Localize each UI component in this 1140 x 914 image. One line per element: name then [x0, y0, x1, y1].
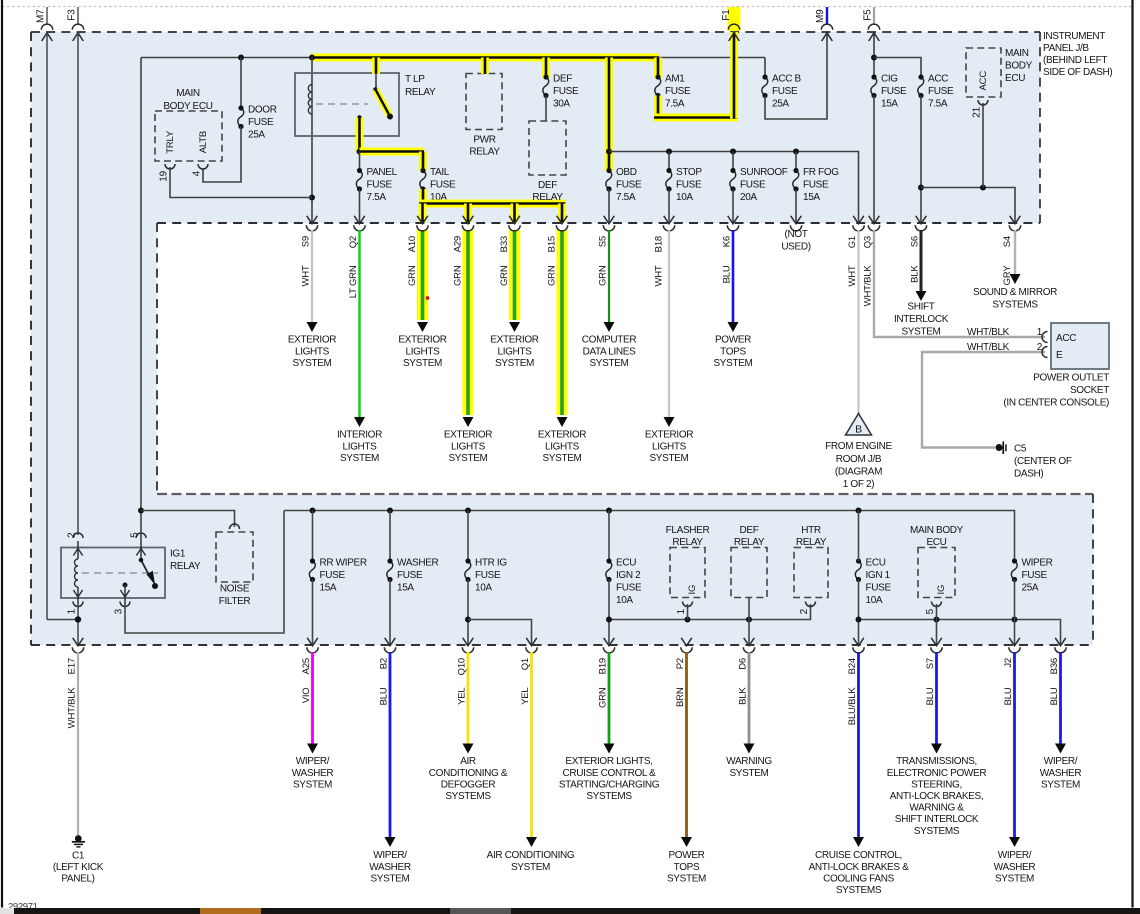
connector K6 + BLU wire to POWER TOPS SYSTEM	[728, 216, 739, 224]
svg-text:B24: B24	[847, 658, 858, 674]
svg-text:BLU: BLU	[379, 687, 390, 705]
svg-text:A10: A10	[407, 236, 418, 252]
svg-text:SIDE OF DASH): SIDE OF DASH)	[1043, 67, 1112, 78]
connector A10 + GRN(hot) wire to EXTERIOR LIGHTS SYSTEM	[417, 230, 428, 320]
svg-text:IGN 2: IGN 2	[616, 570, 641, 581]
wire: PANEL fuse out to Q2	[359, 189, 361, 223]
svg-text:GRN: GRN	[453, 265, 464, 286]
POWER OUTLET SOCKET box	[1051, 323, 1109, 369]
MAIN BODY ECU (top-right) dashed box	[966, 48, 1001, 97]
svg-text:S7: S7	[925, 658, 936, 669]
wire: branch to S4	[921, 188, 1015, 224]
svg-text:Q3: Q3	[863, 236, 874, 248]
svg-text:C1: C1	[72, 850, 85, 861]
wire: to noise filter	[141, 511, 235, 528]
svg-text:CRUISE CONTROL,: CRUISE CONTROL,	[815, 850, 902, 861]
wire: OBD feed (yellow, bus corner down)	[605, 58, 613, 172]
svg-text:LIGHTS: LIGHTS	[497, 346, 532, 357]
wire: pin21 down to bus	[982, 103, 984, 188]
PANEL FUSE 7.5A	[356, 171, 362, 190]
svg-text:FLASHER: FLASHER	[666, 525, 710, 536]
svg-text:MAIN BODY: MAIN BODY	[910, 525, 964, 536]
svg-text:1: 1	[1037, 327, 1043, 338]
HTR IG FUSE 10A	[467, 511, 469, 562]
svg-text:SYSTEMS: SYSTEMS	[992, 300, 1038, 311]
svg-text:2: 2	[67, 532, 78, 538]
top J/B dashed border	[31, 31, 1040, 33]
svg-text:WASHER: WASHER	[292, 768, 334, 779]
wire: DEF fuse feed (yellow)	[542, 58, 550, 79]
svg-text:BRN: BRN	[675, 687, 686, 707]
svg-text:PWR: PWR	[473, 135, 495, 146]
svg-text:1: 1	[676, 608, 687, 614]
svg-text:TAIL: TAIL	[430, 167, 450, 178]
svg-text:SYSTEM: SYSTEM	[293, 779, 332, 790]
connector M7 (top)	[46, 7, 48, 25]
svg-text:HTR: HTR	[801, 525, 821, 536]
wire: S7 drop	[936, 620, 938, 646]
svg-text:BODY ECU: BODY ECU	[163, 101, 212, 112]
svg-text:B19: B19	[598, 658, 609, 674]
svg-text:GRN: GRN	[598, 265, 609, 286]
svg-text:RELAY: RELAY	[734, 537, 765, 548]
TAIL FUSE 10A	[420, 171, 426, 190]
connector E17 + WHT/BLK wire to ground C1	[73, 638, 84, 646]
triangle B (from engine room J/B)	[846, 414, 872, 436]
wire: TAIL fuse out (yellow) + distribution bus	[419, 189, 427, 204]
svg-text:BLK: BLK	[738, 687, 749, 705]
svg-text:GRN: GRN	[407, 265, 418, 286]
yellow highlighted feed bus	[311, 54, 659, 62]
svg-text:2: 2	[1037, 342, 1043, 353]
svg-text:FUSE: FUSE	[397, 570, 423, 581]
junction: M7 joins pin-1/E17 node	[47, 619, 78, 621]
svg-text:WIPER/: WIPER/	[296, 756, 330, 767]
connector B18 + WHT wire to EXTERIOR LIGHTS SYSTEM	[664, 216, 675, 224]
svg-text:SYSTEM: SYSTEM	[403, 358, 442, 369]
connector B15 + GRN(hot) wire to EXTERIOR LIGHTS SYSTEM	[557, 230, 568, 415]
connector B33 + GRN(hot) wire to EXTERIOR LIGHTS SYSTEM	[509, 230, 520, 320]
STOP FUSE 10A	[668, 152, 670, 171]
svg-text:BLU: BLU	[1049, 687, 1060, 705]
MAIN BODY ECU dashed box (lower)	[918, 548, 955, 598]
svg-text:WARNING &: WARNING &	[909, 803, 964, 814]
wire: AM1 feed (yellow corner)	[654, 58, 662, 79]
ECU IGN 2 FUSE 10A	[608, 511, 610, 562]
svg-text:DEF: DEF	[740, 525, 759, 536]
svg-text:E17: E17	[67, 658, 78, 674]
wire: T LP switch feed (yellow drop)	[372, 58, 380, 75]
WASHER FUSE 15A	[389, 511, 391, 562]
svg-text:25A: 25A	[1022, 583, 1039, 594]
svg-text:15A: 15A	[397, 583, 414, 594]
svg-text:SYSTEM: SYSTEM	[649, 453, 688, 464]
connector S5 + GRN wire to COMPUTER DATA LINES SYSTEM	[604, 216, 615, 224]
svg-text:ALTB: ALTB	[198, 131, 209, 153]
connector G1 + WHT wire to triangle B	[853, 216, 864, 224]
wire: yellow across to TAIL fuse	[360, 148, 425, 156]
svg-text:RELAY: RELAY	[170, 561, 201, 572]
svg-text:FILTER: FILTER	[219, 596, 251, 607]
svg-text:USED): USED)	[781, 242, 810, 253]
connector Q1 + YEL wire to AIR CONDITIONING SYSTEM	[526, 638, 537, 646]
svg-text:3: 3	[114, 608, 125, 614]
svg-text:AIR: AIR	[460, 756, 476, 767]
svg-text:BLU: BLU	[1003, 687, 1014, 705]
svg-text:ACC: ACC	[928, 74, 948, 85]
OBD FUSE 7.5A	[606, 171, 612, 190]
wire: AM1 out to F1 exit (yellow)	[654, 96, 662, 119]
svg-text:STARTING/CHARGING: STARTING/CHARGING	[559, 779, 660, 790]
svg-text:LIGHTS: LIGHTS	[451, 441, 486, 452]
svg-text:IG: IG	[936, 585, 947, 595]
svg-text:10A: 10A	[866, 595, 883, 606]
svg-text:10A: 10A	[475, 583, 492, 594]
svg-text:ROOM J/B: ROOM J/B	[836, 454, 882, 465]
wire: F5 feed down	[873, 32, 875, 77]
FLASHER RELAY dashed box	[670, 548, 705, 598]
svg-text:EXTERIOR: EXTERIOR	[538, 430, 586, 441]
svg-text:BLU: BLU	[925, 687, 936, 705]
svg-text:C5: C5	[1014, 444, 1027, 455]
svg-text:MAIN: MAIN	[176, 88, 200, 99]
svg-text:(CENTER OF: (CENTER OF	[1014, 456, 1072, 467]
connector M9 (top, blue stub)	[826, 7, 828, 25]
svg-text:WHT: WHT	[301, 265, 312, 286]
wire: F3 down to IG1 pin 2	[77, 33, 79, 535]
svg-text:WHT/BLK: WHT/BLK	[967, 342, 1010, 353]
svg-text:FUSE: FUSE	[928, 86, 954, 97]
wire: ACC B out to M9 exit	[765, 32, 827, 119]
junction at panel/tail split	[357, 149, 363, 155]
svg-text:VIO: VIO	[301, 688, 312, 704]
svg-text:LT GRN: LT GRN	[348, 265, 359, 298]
svg-text:S5: S5	[598, 236, 609, 247]
svg-text:LIGHTS: LIGHTS	[652, 441, 687, 452]
connector: pin 21 (ACC)	[978, 100, 988, 105]
svg-text:LIGHTS: LIGHTS	[545, 441, 580, 452]
svg-text:10A: 10A	[676, 192, 693, 203]
ACC FUSE 7.5A	[918, 77, 924, 96]
svg-text:FUSE: FUSE	[248, 117, 274, 128]
svg-text:SYSTEM: SYSTEM	[589, 358, 628, 369]
svg-text:SYSTEM: SYSTEM	[901, 326, 940, 337]
IG1 switch: pin5 in, blade, pin3 out	[140, 541, 142, 559]
junction: T LP coil column	[309, 55, 315, 61]
svg-text:BLK: BLK	[910, 265, 921, 283]
svg-text:TOPS: TOPS	[674, 862, 700, 873]
svg-text:RELAY: RELAY	[405, 87, 436, 98]
svg-text:WASHER: WASHER	[369, 862, 411, 873]
svg-text:WIPER/: WIPER/	[998, 850, 1032, 861]
svg-text:SYSTEM: SYSTEM	[729, 768, 768, 779]
wire: power outlet E pin to C5	[922, 352, 1045, 448]
svg-text:FUSE: FUSE	[803, 180, 829, 191]
svg-text:COOLING FANS: COOLING FANS	[823, 873, 894, 884]
svg-text:SYSTEM: SYSTEM	[1041, 779, 1080, 790]
svg-text:BODY: BODY	[1005, 61, 1033, 72]
svg-text:FUSE: FUSE	[367, 180, 393, 191]
svg-text:ELECTRONIC POWER: ELECTRONIC POWER	[887, 768, 987, 779]
svg-text:SYSTEM: SYSTEM	[542, 453, 581, 464]
svg-text:WIPER/: WIPER/	[373, 850, 407, 861]
svg-text:B33: B33	[499, 236, 510, 252]
svg-text:(IN CENTER CONSOLE): (IN CENTER CONSOLE)	[1003, 398, 1109, 409]
svg-text:5: 5	[925, 608, 936, 614]
connector S7 + BLU wire to TRANSMISSIONS etc	[931, 638, 942, 646]
svg-text:B36: B36	[1049, 658, 1060, 674]
svg-text:DEF: DEF	[553, 74, 572, 85]
svg-text:ACC B: ACC B	[772, 74, 801, 85]
svg-text:TRANSMISSIONS,: TRANSMISSIONS,	[896, 756, 977, 767]
svg-text:FUSE: FUSE	[665, 86, 691, 97]
wire: branch to ACC fuse	[874, 58, 921, 78]
svg-text:Q10: Q10	[457, 658, 468, 675]
svg-text:SYSTEMS: SYSTEMS	[836, 885, 882, 896]
svg-text:10A: 10A	[616, 595, 633, 606]
wire: DOOR fuse out to ALTB pin 4	[203, 127, 241, 183]
main feed bus y=57.5 (thin part)	[141, 57, 313, 59]
connector B19 + GRN wire to EXTERIOR LIGHTS etc	[604, 638, 615, 646]
T LP switch output contact	[357, 115, 362, 120]
wire: thin drop to PANEL fuse	[359, 152, 361, 171]
svg-text:STEERING,: STEERING,	[911, 779, 962, 790]
svg-text:INSTRUMENT: INSTRUMENT	[1043, 31, 1105, 42]
svg-text:LIGHTS: LIGHTS	[342, 441, 377, 452]
ECU IGN 1 FUSE 10A	[855, 561, 861, 580]
svg-text:5: 5	[130, 532, 141, 538]
svg-text:POWER: POWER	[668, 850, 704, 861]
connector pin 5	[136, 533, 146, 538]
connector D6 + BLK wire to WARNING SYSTEM	[744, 638, 755, 646]
DEF RELAY dashed box (top)	[529, 121, 566, 175]
svg-text:S4: S4	[1002, 236, 1013, 247]
connector pin 1	[73, 602, 83, 607]
svg-text:EXTERIOR: EXTERIOR	[645, 430, 693, 441]
connector pin 2	[73, 533, 83, 538]
svg-text:25A: 25A	[772, 99, 789, 110]
AM1 FUSE 7.5A	[655, 77, 661, 96]
connector pin 3	[120, 602, 130, 607]
T LP RELAY box	[295, 73, 399, 136]
svg-text:7.5A: 7.5A	[616, 192, 636, 203]
svg-text:7.5A: 7.5A	[665, 99, 685, 110]
svg-text:SYSTEM: SYSTEM	[495, 358, 534, 369]
WIPER FUSE 25A	[1011, 561, 1017, 580]
wire: pin3 to fuse bus riser	[125, 511, 284, 634]
svg-text:T LP: T LP	[405, 74, 425, 85]
svg-text:AM1: AM1	[665, 74, 685, 85]
wire: DEF fuse to DEF relay	[545, 96, 547, 122]
svg-text:RELAY: RELAY	[532, 192, 563, 203]
svg-text:FUSE: FUSE	[772, 86, 798, 97]
svg-text:WARNING: WARNING	[726, 756, 772, 767]
svg-text:15A: 15A	[881, 99, 898, 110]
bottom bar	[0, 908, 14, 914]
connector Q3 + WHT/BLK wire to power outlet ACC pin	[869, 216, 880, 224]
wire: pin1 down to E17	[77, 604, 79, 645]
connector C5 symbol	[996, 444, 1003, 451]
connector J2 + BLU wire to WIPER/WASHER SYSTEM	[1009, 638, 1020, 646]
svg-text:SYSTEM: SYSTEM	[995, 873, 1034, 884]
IG1 RELAY box	[61, 548, 165, 599]
red marker dot	[426, 296, 430, 300]
junction: MAIN BODY ECU pin19 tap	[309, 195, 315, 201]
svg-text:FUSE: FUSE	[866, 583, 892, 594]
ground symbol C1	[75, 835, 82, 842]
svg-text:BLU/BLK: BLU/BLK	[847, 687, 858, 726]
svg-text:SYSTEM: SYSTEM	[370, 873, 409, 884]
svg-text:AIR CONDITIONING: AIR CONDITIONING	[487, 850, 575, 861]
svg-text:FUSE: FUSE	[475, 570, 501, 581]
svg-text:SYSTEM: SYSTEM	[667, 873, 706, 884]
svg-text:B15: B15	[547, 236, 558, 252]
svg-text:B: B	[855, 424, 862, 436]
svg-text:D6: D6	[738, 658, 749, 670]
svg-text:FROM ENGINE: FROM ENGINE	[825, 441, 892, 452]
svg-text:BLU: BLU	[722, 265, 733, 283]
svg-text:TRLY: TRLY	[165, 130, 176, 154]
svg-text:LIGHTS: LIGHTS	[295, 346, 330, 357]
svg-text:CONDITIONING &: CONDITIONING &	[429, 768, 508, 779]
svg-text:PANEL): PANEL)	[61, 874, 94, 885]
svg-text:FUSE: FUSE	[430, 180, 456, 191]
page right border	[1131, 0, 1133, 908]
MAIN BODY ECU (top-left) dashed box	[155, 111, 222, 161]
svg-text:K6: K6	[722, 236, 733, 247]
svg-text:1 OF 2): 1 OF 2)	[843, 479, 874, 490]
svg-text:EXTERIOR LIGHTS,: EXTERIOR LIGHTS,	[565, 756, 652, 767]
DEF RELAY dashed box (lower)	[731, 548, 767, 598]
ACC B FUSE 25A	[762, 77, 768, 96]
instrument panel J/B block (top, blue)	[31, 32, 1040, 223]
svg-text:J2: J2	[1003, 658, 1014, 668]
svg-text:Q1: Q1	[520, 658, 531, 670]
svg-text:SOUND & MIRROR: SOUND & MIRROR	[973, 287, 1057, 298]
pin 1 connector arc	[1042, 332, 1048, 343]
svg-text:ECU: ECU	[866, 558, 886, 569]
svg-text:1: 1	[67, 608, 78, 614]
svg-text:WHT/BLK: WHT/BLK	[967, 327, 1010, 338]
svg-text:MAIN: MAIN	[1005, 48, 1029, 59]
svg-text:SYSTEM: SYSTEM	[511, 862, 550, 873]
svg-text:F1: F1	[721, 9, 732, 21]
svg-text:DEFOGGER: DEFOGGER	[441, 779, 496, 790]
junction: noise filter tap on pin5 feed	[138, 508, 144, 514]
svg-text:EXTERIOR: EXTERIOR	[398, 335, 446, 346]
wire: G1 distribution bus y=151.5	[609, 152, 859, 224]
svg-text:FUSE: FUSE	[740, 180, 766, 191]
svg-text:WIPER: WIPER	[1022, 558, 1053, 569]
svg-text:LIGHTS: LIGHTS	[405, 346, 440, 357]
svg-text:FUSE: FUSE	[881, 86, 907, 97]
junction: DOOR fuse tap	[238, 55, 244, 61]
svg-text:FUSE: FUSE	[320, 570, 346, 581]
DOOR FUSE 25A	[238, 108, 244, 127]
svg-text:PANEL J/B: PANEL J/B	[1043, 43, 1089, 54]
lower J/B block (blue)	[31, 494, 1093, 645]
svg-text:RR WIPER: RR WIPER	[320, 558, 367, 569]
svg-text:FUSE: FUSE	[1022, 570, 1048, 581]
svg-text:FUSE: FUSE	[676, 180, 702, 191]
svg-text:(LEFT KICK: (LEFT KICK	[53, 862, 104, 873]
svg-text:RELAY: RELAY	[672, 537, 703, 548]
wire: DEF relay out to D6	[748, 598, 750, 646]
svg-text:INTERIOR: INTERIOR	[337, 430, 382, 441]
FR FOG FUSE 15A	[795, 152, 797, 171]
svg-text:B18: B18	[654, 236, 665, 252]
svg-text:SYSTEMS: SYSTEMS	[445, 791, 491, 802]
svg-text:WASHER: WASHER	[397, 558, 439, 569]
svg-text:SYSTEM: SYSTEM	[448, 453, 487, 464]
svg-text:EXTERIOR: EXTERIOR	[288, 335, 336, 346]
svg-text:2: 2	[799, 608, 810, 614]
svg-text:SUNROOF: SUNROOF	[740, 167, 788, 178]
DEF FUSE 30A	[543, 77, 549, 96]
svg-text:CRUISE CONTROL &: CRUISE CONTROL &	[563, 768, 657, 779]
svg-text:A29: A29	[453, 236, 464, 252]
junction + branch to Q1	[465, 617, 471, 623]
svg-text:OBD: OBD	[616, 167, 637, 178]
svg-text:S6: S6	[910, 236, 921, 247]
connector F5 (top)	[873, 7, 875, 25]
svg-text:SYSTEMS: SYSTEMS	[914, 826, 960, 837]
svg-text:B2: B2	[379, 658, 390, 669]
svg-text:STOP: STOP	[676, 167, 702, 178]
connector B24 + BLU/BLK wire to CRUISE CONTROL etc	[853, 638, 864, 646]
svg-text:M9: M9	[815, 9, 826, 23]
connector S4 + GRY wire to SOUND & MIRROR SYSTEMS	[1010, 216, 1021, 224]
svg-text:DASH): DASH)	[1014, 469, 1043, 480]
svg-text:WASHER: WASHER	[1040, 768, 1082, 779]
svg-text:RELAY: RELAY	[796, 537, 827, 548]
svg-text:DATA LINES: DATA LINES	[583, 346, 636, 357]
connector: pin 4 (ALTB)	[198, 164, 208, 169]
svg-text:FUSE: FUSE	[616, 583, 642, 594]
IG1 mech link dashed	[82, 572, 158, 574]
svg-text:(DIAGRAM: (DIAGRAM	[835, 466, 882, 477]
connector S6 + BLK wire to SHIFT INTERLOCK SYSTEM	[916, 216, 927, 224]
IG1 coil (pin2->pin1 line)	[77, 541, 79, 559]
wire: pin19 to S9 column	[170, 167, 312, 198]
connector A25 + VIO wire to WIPER/WASHER SYSTEM	[307, 638, 318, 646]
svg-text:FUSE: FUSE	[616, 180, 642, 191]
T LP switch contact + blade (yellow)	[373, 87, 378, 92]
svg-text:20A: 20A	[740, 192, 757, 203]
svg-text:15A: 15A	[320, 583, 337, 594]
wire: T LP output (yellow) down	[356, 118, 364, 152]
svg-text:SYSTEM: SYSTEM	[713, 358, 752, 369]
svg-text:21: 21	[972, 106, 983, 117]
left blue column	[31, 223, 157, 494]
svg-text:F5: F5	[863, 9, 874, 21]
svg-text:IG1: IG1	[170, 549, 186, 560]
connector A29 + GRN(hot) wire to EXTERIOR LIGHTS SYSTEM	[463, 230, 474, 415]
junction: CIG/ACC split	[871, 55, 877, 61]
connector F1 (top, yellow)	[728, 7, 741, 31]
svg-text:FR FOG: FR FOG	[803, 167, 839, 178]
svg-text:4: 4	[192, 170, 203, 176]
svg-text:DOOR: DOOR	[248, 105, 277, 116]
svg-text:HTR IG: HTR IG	[475, 558, 507, 569]
connector Q2 + LT GRN wire to INTERIOR LIGHTS SYSTEM	[354, 216, 365, 224]
svg-text:TOPS: TOPS	[720, 346, 746, 357]
SUNROOF FUSE 20A	[732, 152, 734, 171]
svg-text:7.5A: 7.5A	[928, 99, 948, 110]
svg-text:(NOT: (NOT	[784, 229, 807, 240]
svg-text:YEL: YEL	[520, 688, 531, 705]
svg-text:WIPER/: WIPER/	[1044, 756, 1078, 767]
